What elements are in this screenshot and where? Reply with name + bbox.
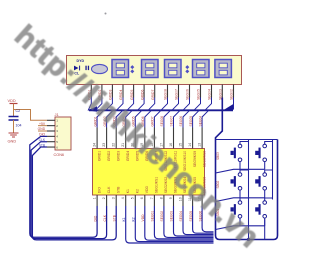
svg-text:K1: K1 [126,189,130,193]
pushbutton SB02 row2 col2 [255,173,266,190]
IC U1 bottom pin 4 stub [125,195,127,206]
bus left arrowhead [87,106,97,112]
wire GRID2 display pin to bus [95,98,102,111]
wire button top contact to column [240,170,249,173]
svg-text:8: 8 [159,197,163,199]
wire row 3 bottom line to bus [216,226,265,230]
svg-text:15: 15 [178,143,182,147]
IC U1 bottom pin 2 stub [106,195,108,206]
svg-text:STB: STB [116,186,120,193]
display pin stub GRID7 [154,85,156,98]
pushbutton SB01 row3 col2 [255,201,266,218]
display pin stub GRID4 [122,85,124,98]
wire VDD: pin1 to VDD rail [14,110,48,121]
svg-text:2: 2 [102,197,106,199]
wire bus to IC U1 top pin 20 [135,110,142,127]
connector J1 body CON6 [55,117,71,150]
svg-text:13: 13 [198,143,202,147]
svg-text:SEG05: SEG05 [189,116,193,127]
svg-text:CON6: CON6 [54,153,65,157]
wire GRID1 display pin to bus [88,98,91,111]
wire K1: IC pin 4 to key matrix bus [126,206,214,243]
svg-text:5: 5 [131,197,135,199]
IC U1 top pin 17 stub [163,128,165,149]
speck (decorative) [105,13,107,15]
display pin stub SEG05 [200,85,202,98]
IC U1 bottom pin 10 stub [182,195,184,206]
7-seg digit 5 [215,60,232,78]
wire VDD: IC pin 6 to key matrix bus [145,206,214,240]
svg-text:6: 6 [140,197,144,199]
wire button bottom contact drop [264,162,266,170]
svg-text:7: 7 [150,197,154,199]
display module DS1 body [67,56,242,85]
svg-text:SEG08: SEG08 [160,116,164,127]
junction K1 column to bottom bus [247,238,250,241]
svg-text:24: 24 [93,143,97,147]
wire button top contact to column [240,198,249,201]
svg-text:CLK: CLK [39,138,46,142]
wire SEG03: IC pin 9 to key matrix bus [174,206,214,236]
wire GND stub [38,130,47,132]
wire row 1 bottom line to bus [216,169,265,173]
display pin stub SEG02 [233,85,235,98]
svg-text:GRID4: GRID4 [126,151,130,161]
wire display pin straight into bus / matrix feed [216,98,278,240]
ground symbol GND [8,133,19,144]
wire bus to IC U1 top pin 22 [116,110,123,127]
colon 1 [130,65,134,73]
play icon [74,66,80,71]
wire GRID5 display pin to bus [127,98,134,111]
wire bus to IC U1 top pin 18 [154,110,161,127]
wire SEG05: IC pin 11 to key matrix bus [193,206,214,233]
IC U1 bottom pin 8 stub [163,195,165,206]
colon 2 [185,65,189,73]
display pin stub GRID6 [143,85,145,98]
7-seg digit 3 [165,60,182,78]
wire SEG04: IC pin 10 to key matrix bus [183,206,214,235]
display pin stub GRID5 [133,85,135,98]
7-seg digit 1 [112,60,129,78]
wire row3 col2 contact to bottom bus [264,219,266,239]
svg-text:STB: STB [39,143,46,147]
IC U1 bottom pin 3 stub [115,195,117,206]
svg-text:C2: C2 [16,109,21,113]
connector J1 pin 3 stub [47,130,55,132]
wire GRID7 display pin to bus [148,98,155,111]
connector J1 pin 1 stub [47,119,55,121]
wire +5V stub [38,125,47,127]
connector J1 pin 4 stub [47,135,55,137]
wire SEG02: IC pin 8 to key matrix bus [164,206,214,237]
wire SEG08 display pin to bus [161,98,168,111]
wire button top contact to column [265,198,273,201]
wire bus to IC U1 top pin 17 [164,110,171,127]
wire SEG01: IC pin 7 to key matrix bus [154,206,213,239]
wire bus to IC U1 top pin 24 [97,110,104,127]
pushbutton SB01 row3 col1 [231,201,242,218]
IC U1 bottom pin 1 stub [96,195,98,206]
svg-text:VDD: VDD [145,185,149,193]
IC U1 top pin 13 stub [201,128,203,149]
wire STB: connector J1 pin 6 to IC pin 3 [32,147,116,240]
IC U1 bottom pin 5 stub [134,195,136,206]
op IC U1 TM1668 body [93,149,205,196]
svg-text:4: 4 [121,197,125,199]
wire button top contact to column [265,142,273,145]
display pin stub GRID3 [111,85,113,98]
IC U1 top pin 15 stub [182,128,184,149]
pushbutton SB03 row1 col2 [255,144,266,161]
wire SEG06: IC pin 12 to key matrix bus [202,206,213,232]
wire SEG05 display pin to bus [194,98,201,111]
wire bus to IC U1 top pin 13 [202,110,209,127]
bus right arrowhead [224,104,234,110]
svg-text:GRID2: GRID2 [107,151,111,161]
svg-text:SEG04: SEG04 [198,116,202,127]
wire GRID6 display pin to bus [138,98,145,111]
wire button bottom contact drop [239,218,241,226]
IC U1 top pin 23 stub [106,128,108,149]
svg-text:3: 3 [112,197,116,199]
pause icon [85,66,89,70]
wire VDD to C2 [13,110,15,117]
svg-text:DIO: DIO [39,133,45,137]
wire matrix top feed line [216,139,278,141]
wire GRID4 display pin to bus [116,98,123,111]
svg-text:GRID7: GRID7 [151,116,155,126]
wire button bottom contact drop [239,190,241,198]
display pin stub GRID1 [90,85,92,98]
wire bus to IC U1 top pin 14 [193,110,200,127]
wire CLK: connector J1 pin 5 to IC pin 2 [31,142,107,239]
svg-text:23: 23 [102,143,106,147]
connector J1 pin 6 stub [47,146,55,148]
wire bus to IC U1 top pin 15 [183,110,190,127]
svg-text:CLK: CLK [107,186,111,193]
wire display pin SEG02 drop onto bus arrowhead [233,98,235,110]
IC U1 bottom pin 7 stub [153,195,155,206]
svg-text:SEG06: SEG06 [179,116,183,127]
pushbutton SB02 row2 col1 [231,173,242,190]
display pin stub SEG06 [189,85,191,98]
pushbutton SB03 row1 col1 [231,144,242,161]
svg-text:SB03: SB03 [216,152,220,160]
wire C2 to ground [13,120,15,133]
wire SEG06 display pin to bus [183,98,190,111]
wire button bottom contact drop [239,162,241,170]
display pin stub SEG07 [178,85,180,98]
7-seg digit 2 [142,60,159,78]
wire K2 column [272,140,274,200]
svg-text:9: 9 [169,197,173,199]
svg-text:14: 14 [188,143,192,147]
power symbol VDD [8,98,18,110]
wire GRID3 display pin to bus [106,98,113,111]
svg-text:K2: K2 [136,189,140,193]
display pin stub GRID2 [101,85,103,98]
connector J1 pin 2 stub [47,125,55,127]
svg-text:GND: GND [8,139,17,144]
wire button top contact to column [240,142,249,145]
IC U1 bottom pin 9 stub [173,195,175,206]
IC U1 top pin 24 stub [96,128,98,149]
7-seg digit 4 [193,60,210,78]
display pin stub SEG03 [221,85,223,98]
svg-text:SEG07: SEG07 [170,116,174,127]
IC U1 top pin 21 stub [125,128,127,149]
display pin stub SEG04 [211,85,213,98]
wire bus to IC U1 top pin 21 [126,110,133,127]
svg-text:GRID1: GRID1 [97,151,101,161]
wire K1 column [248,140,250,240]
bus line between display and IC [89,109,233,111]
wire DIO: connector J1 pin 4 to IC pin 1 [30,136,97,237]
IC U1 top pin 19 stub [144,128,146,149]
wire bus to IC U1 top pin 23 [107,110,114,127]
wire button top contact to column [265,170,273,173]
wire bus to IC U1 top pin 19 [145,110,152,127]
svg-text:VDD: VDD [8,98,16,103]
wire bus to IC U1 top pin 16 [174,110,181,127]
IC U1 top pin 20 stub [134,128,136,149]
svg-text:SEG8/KS8: SEG8/KS8 [202,151,206,168]
wire SEG04 display pin to bus [205,98,212,111]
capacitor C2 [9,117,19,121]
wire K2: IC pin 5 to key matrix bus [135,206,213,242]
svg-text:22: 22 [112,143,116,147]
svg-text:GRID3: GRID3 [116,151,120,161]
IC U1 top pin 22 stub [115,128,117,149]
IC U1 bottom pin 11 stub [192,195,194,206]
minus-sign / LED ellipse [92,64,108,73]
IC U1 top pin 16 stub [173,128,175,149]
svg-text:104: 104 [16,124,22,128]
IC U1 bottom pin 6 stub [144,195,146,206]
IC U1 top pin 14 stub [192,128,194,149]
IC U1 bottom pin 12 stub [201,195,203,206]
svg-text:SEG1/KS1: SEG1/KS1 [155,177,159,194]
svg-text:DIO: DIO [97,187,101,193]
wire SEG07 display pin to bus [172,98,179,111]
IC U1 top pin 18 stub [153,128,155,149]
svg-text:1: 1 [93,197,97,199]
wire button bottom contact drop [264,190,266,198]
connector J1 pin 5 stub [47,141,55,143]
wire button bottom contact drop [264,218,266,226]
wire row 2 bottom line to bus [216,198,265,202]
display pin stub SEG08 [167,85,169,98]
